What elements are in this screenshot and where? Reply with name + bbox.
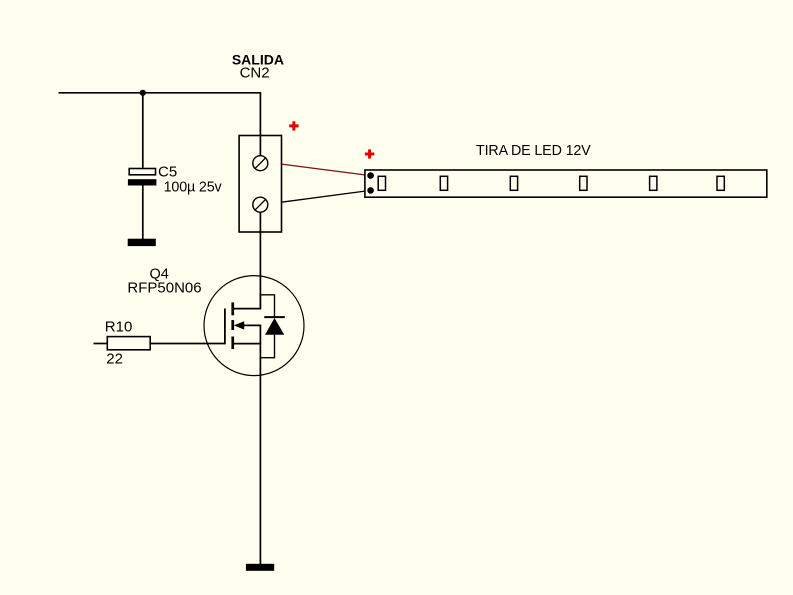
LED 3 — [510, 176, 517, 190]
body diode bottom bracket — [260, 335, 274, 358]
body diode top bracket — [260, 295, 274, 317]
Q4 channel dash source — [231, 337, 234, 350]
Q4 channel dash drain — [231, 302, 234, 315]
LED strip body — [365, 170, 767, 197]
Q4 source connection — [234, 343, 261, 345]
black wire CN2 terminal2 to LED strip — [282, 190, 371, 202]
capacitor C5 top plate — [129, 169, 155, 175]
body diode cathode bar — [264, 316, 285, 318]
ground below C5 — [128, 239, 156, 246]
LED 1 — [378, 176, 385, 190]
resistor R10 body — [107, 337, 150, 350]
svg-text:CN2: CN2 — [240, 64, 270, 81]
LED strip pad 2 — [367, 187, 374, 194]
node junction at C5 branch — [140, 90, 146, 96]
wire: Q4 source down to ground — [259, 325, 261, 564]
CN2 terminal 1 (screw) — [253, 156, 268, 171]
red wire CN2 terminal1 to LED strip — [282, 164, 371, 176]
LED strip pad 1 — [367, 172, 374, 179]
connector CN2 body — [239, 136, 281, 233]
Q4 body arrow — [234, 321, 244, 329]
wire: vertical down to C5 — [142, 93, 144, 169]
CN2 terminal 2 (screw) — [253, 197, 268, 212]
Q4 channel dash body — [231, 320, 234, 330]
plus sign near CN2 — [289, 121, 298, 130]
Q4 drain connection — [234, 308, 261, 310]
plus sign near LED strip — [365, 149, 374, 158]
svg-text:R10: R10 — [105, 319, 133, 336]
body diode anode triangle — [265, 318, 284, 335]
resistor R10 left stub — [94, 343, 108, 345]
svg-text:TIRA DE LED 12V: TIRA DE LED 12V — [476, 143, 591, 159]
LED 6 — [717, 176, 724, 190]
wire: R10 to gate — [150, 343, 225, 345]
wire: CN2 terminal2 down to Q4 drain — [259, 212, 261, 309]
wire: vertical into CN2 connector — [259, 93, 261, 157]
LED 5 — [650, 176, 657, 190]
wire: C5 to ground — [142, 186, 144, 240]
svg-text:22: 22 — [106, 351, 123, 368]
Q4 gate bar — [224, 309, 226, 345]
capacitor C5 bottom plate — [128, 179, 156, 185]
Q4 body connection with arrow — [243, 324, 261, 326]
wire: top horizontal from left to CN2 — [59, 92, 262, 94]
svg-text:100µ 25v: 100µ 25v — [164, 179, 223, 195]
LED 4 — [580, 176, 587, 190]
transistor Q4 body circle — [204, 276, 304, 376]
svg-text:RFP50N06: RFP50N06 — [127, 279, 201, 296]
ground at bottom — [246, 564, 274, 571]
svg-text:C5: C5 — [158, 164, 177, 181]
LED 2 — [440, 176, 447, 190]
